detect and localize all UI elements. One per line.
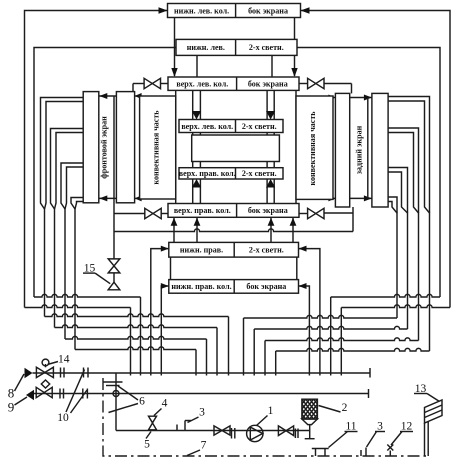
node arrow into box4 left	[192, 111, 201, 120]
node flow arrow 8	[25, 368, 33, 378]
header box3 верхний левый коллектор	[168, 77, 299, 90]
wire box9 right feeder	[299, 286, 310, 376]
wire right bus 3 drop	[264, 341, 266, 376]
wire rear screen riser pipe 2	[388, 128, 418, 213]
wire box2 to box3 left	[196, 55, 198, 77]
node arrow into box3 right	[291, 68, 297, 77]
wire left bus 2	[55, 325, 218, 328]
node arrow into rear screen top	[364, 95, 372, 101]
wire left bus 1 drop	[228, 317, 230, 376]
wire right bus 3	[265, 338, 419, 341]
pipe pump suction line 3	[116, 430, 310, 432]
wire konv-right to panel top arrow	[333, 97, 335, 99]
svg-text:2: 2	[342, 402, 348, 414]
svg-text:нижн. лев.: нижн. лев.	[187, 43, 225, 52]
wire left riser 4 to bus	[74, 209, 76, 350]
wire box8 right feeder	[299, 249, 320, 376]
wire front screen riser pipe 1	[41, 98, 84, 210]
wire rear screen bottom feed	[350, 197, 372, 199]
header box8 нижний правый	[169, 242, 299, 257]
header box7 верхний правый коллектор	[168, 204, 299, 218]
svg-text:8: 8	[8, 386, 15, 401]
svg-text:конвективная часть: конвективная часть	[152, 110, 161, 185]
wire konv right edge extension	[295, 90, 297, 203]
svg-text:11: 11	[345, 421, 356, 433]
wire box3-box4 right pipe pair	[266, 90, 268, 119]
node arrow into box9 left	[161, 283, 169, 289]
valve lower-right gate	[308, 208, 324, 218]
wire front screen riser pipe 3	[61, 163, 83, 209]
node line2 end cap	[368, 389, 370, 398]
wire konv left edge extension	[175, 90, 177, 203]
node line1 end cap	[369, 368, 371, 378]
front screen panel A	[83, 92, 99, 203]
svg-text:4: 4	[162, 398, 168, 410]
header box1 нижний левый коллектор	[168, 4, 301, 18]
wire right bus 4	[276, 348, 430, 351]
node line1 flange pair 2	[83, 368, 85, 378]
wire inner loop right (box2 right, down, to drop at 330.7)	[297, 48, 440, 298]
pipe main line 1	[33, 372, 371, 374]
wire front screen riser pipe 2	[51, 129, 84, 210]
wire front screen top feed	[99, 95, 116, 97]
wire box8 left feeder	[151, 249, 169, 376]
wire left bus 3	[65, 336, 207, 339]
wire right riser 4 to bus	[429, 213, 431, 352]
wire bend to rear panel top	[351, 84, 353, 94]
wire box7-box6 right pipe pair	[266, 179, 268, 204]
node funnel bars	[103, 381, 123, 383]
wire box7-box8 stub 3	[270, 217, 272, 242]
node arrowhead left konv top	[135, 93, 142, 99]
wire konv-left to panel bottom arrow	[135, 197, 140, 199]
svg-text:задний экран: задний экран	[355, 125, 364, 174]
valve on line2	[36, 387, 52, 397]
wire box3 left tab	[160, 83, 168, 85]
wire filter drain stem	[309, 425, 311, 439]
valve V14 on line1	[36, 367, 53, 377]
svg-text:7: 7	[201, 440, 207, 452]
svg-text:3: 3	[199, 407, 205, 419]
svg-text:верх. лев. кол.: верх. лев. кол.	[181, 122, 233, 131]
wire right bus 2	[254, 326, 407, 329]
wire box7 left tab	[161, 213, 168, 215]
valve V15 hourglass	[108, 259, 120, 273]
wire right bus 1 drop	[243, 318, 245, 376]
node arrow into box7 stub 1	[171, 218, 178, 226]
svg-text:2-х светн.: 2-х светн.	[249, 43, 284, 52]
duct louver 13	[425, 400, 443, 423]
node arrow into rear screen bottom	[364, 195, 372, 201]
wire left bus 4	[75, 347, 196, 350]
wire right bus 4 drop	[275, 351, 277, 376]
header box2 нижний левый	[176, 39, 297, 55]
svg-text:2-х светн.: 2-х светн.	[249, 246, 284, 255]
node arrow into front screen bottom	[99, 195, 107, 201]
node arrow into box4 right	[266, 111, 275, 120]
header box4 верхний левый коллектор светн	[179, 120, 283, 133]
node line3 tap bars	[176, 425, 178, 431]
node pump flange pair	[231, 428, 233, 439]
svg-text:бок экрана: бок экрана	[248, 206, 288, 215]
node flow arrow 9	[26, 390, 34, 400]
wire left riser 1 to bus	[44, 209, 46, 317]
valve upper-left gate	[144, 78, 160, 88]
node arrow into box6 right	[266, 179, 275, 188]
node arrow into box8 left	[161, 246, 169, 252]
wire box3 right tab	[299, 83, 308, 85]
wire left riser 2 to bus	[54, 209, 56, 328]
wire box3 left valve line	[133, 83, 145, 85]
wire front screen bottom feed	[99, 197, 116, 199]
header box9 нижний правый коллектор	[169, 280, 299, 294]
svg-text:5: 5	[144, 439, 150, 451]
node valve diamond handle	[41, 380, 49, 388]
wire box7-box8 stub 1	[173, 217, 175, 242]
node arrow into box7 stub 3	[268, 218, 275, 226]
wire rear screen riser pipe 4	[388, 197, 397, 213]
svg-text:2-х светн.: 2-х светн.	[242, 122, 277, 131]
pump P1	[247, 425, 263, 441]
wire box7-box8 stub 4	[292, 217, 294, 242]
wire rear screen riser pipe 3	[388, 168, 407, 214]
rear screen panel C	[335, 93, 349, 207]
node arrow into box1 left	[159, 7, 168, 13]
valve lower-left gate	[145, 208, 161, 218]
svg-text:9: 9	[8, 400, 15, 415]
node arrow into box1 right	[301, 7, 310, 13]
svg-text:верх. прав. кол.: верх. прав. кол.	[174, 206, 231, 215]
node arrow into box9 right	[299, 283, 307, 289]
valve upper-right gate	[308, 78, 324, 88]
svg-text:бок экрана: бок экрана	[246, 282, 286, 291]
wire bend to front panel top	[132, 84, 134, 92]
valve before pump	[214, 426, 230, 435]
svg-text:верх. прав. кол.: верх. прав. кол.	[179, 169, 236, 178]
wire left bus 4 drop	[195, 350, 197, 376]
node line2 flange pair 2	[82, 389, 84, 399]
node arrow into box7 stub 4	[290, 218, 297, 226]
wire rear screen top feed	[350, 97, 372, 99]
node support 11	[312, 448, 329, 450]
wire rear screen connector	[367, 98, 369, 199]
node line2 flange pair	[59, 389, 61, 399]
front screen panel B	[116, 92, 134, 203]
node drain funnel triangle	[108, 282, 120, 290]
wire front screen connector	[113, 96, 115, 198]
svg-text:2-х светн.: 2-х светн.	[242, 169, 277, 178]
svg-text:12: 12	[401, 421, 413, 433]
wire front screen riser pipe 4	[71, 198, 83, 210]
valve after pump	[278, 426, 293, 436]
wire left bus 1	[45, 314, 229, 317]
wire right bus 1	[244, 315, 398, 318]
node drain end bar	[305, 438, 315, 440]
node tap bar right	[365, 448, 367, 457]
svg-text:нижн. прав.: нижн. прав.	[180, 246, 223, 255]
svg-text:бок экрана: бок экрана	[248, 6, 288, 15]
wire header line right riser	[352, 207, 354, 232]
wire right riser 1 to bus	[396, 213, 398, 319]
node drain valve 12	[387, 445, 393, 451]
wire box7 left valve line	[114, 213, 145, 215]
wire box3 right valve line	[324, 83, 352, 85]
node arrowhead left konv bottom	[135, 195, 142, 201]
filter funnel	[302, 419, 318, 425]
wire left riser 3 to bus	[64, 209, 66, 340]
svg-text:бок экрана: бок экрана	[248, 80, 288, 89]
wire drain stub	[113, 273, 115, 282]
wire rear screen riser pipe 1	[388, 97, 429, 214]
wire left bus 2 drop	[216, 328, 218, 376]
drum box5	[192, 135, 280, 162]
node line1 flange pair	[60, 368, 62, 378]
svg-text:10: 10	[57, 412, 69, 424]
node arrow into box6 left	[192, 179, 201, 188]
node after-valve flange pair	[294, 429, 296, 439]
svg-text:14: 14	[58, 353, 70, 365]
wire under-box7 header line	[114, 229, 353, 232]
node arrow into box7 stub 2	[194, 218, 201, 226]
rear screen panel D	[372, 93, 388, 207]
svg-text:верх. лев. кол.: верх. лев. кол.	[176, 80, 228, 89]
node arrow into front screen top	[99, 93, 107, 99]
svg-text:6: 6	[139, 396, 145, 408]
wire inner loop left (box2 left, down, to drop at 140.5)	[34, 48, 176, 298]
pipe main line 2	[34, 393, 369, 395]
valve V4 on line3	[149, 416, 157, 423]
wire box7-box6 left pipe pair	[192, 179, 194, 204]
wire box1 to box3 left downcomer	[174, 18, 176, 77]
wire box1 to box3 right downcomer	[294, 18, 296, 77]
svg-text:нижн. лев. кол.: нижн. лев. кол.	[174, 6, 229, 15]
wire right riser 3 to bus	[418, 213, 420, 341]
wire box3-box4 left pipe pair	[192, 90, 194, 119]
svg-text:1: 1	[268, 405, 274, 417]
wire box7 right tab	[299, 213, 308, 215]
node arrowhead right konv bottom	[328, 195, 335, 201]
wire outer loop left (box1 left, down left frame, to drop at 130.5)	[25, 11, 168, 308]
node arrow into box8 right	[299, 246, 307, 252]
convective part left box	[140, 96, 176, 199]
wire right bus 2 drop	[253, 329, 255, 376]
node arrow into box3 left	[171, 68, 177, 77]
wire box4-box5 stubs	[192, 133, 194, 136]
wire konv-left to panel top arrow	[135, 95, 140, 97]
wire box2 to box3 right	[271, 55, 273, 77]
wire right riser 2 to bus	[407, 213, 409, 330]
node arrowhead right konv top	[328, 95, 335, 101]
wire duct downpipe	[424, 423, 426, 456]
wire box5-box6 stubs	[192, 162, 194, 168]
wire konv-right to panel bottom arrow	[333, 197, 335, 199]
wire left bus 3 drop	[206, 339, 208, 376]
wire box8-box9 edge stub 1	[170, 257, 172, 280]
wire box7 right valve line	[324, 212, 353, 214]
svg-text:3: 3	[377, 421, 383, 433]
filter mesh box	[302, 399, 318, 419]
wire box7-box8 stub 2	[196, 217, 198, 242]
header box6 верхний правый коллектор светн	[179, 168, 283, 179]
convective part right box	[296, 96, 333, 199]
svg-text:фронтовой экран: фронтовой экран	[100, 116, 109, 179]
wire box9 left feeder	[161, 286, 169, 376]
wire box8-box9 edge stub 2	[296, 257, 298, 280]
node valve14 handwheel	[45, 364, 47, 367]
wire funnel stem	[115, 373, 117, 431]
boundary dash-dot bottom	[103, 378, 428, 456]
svg-text:нижн. прав. кол.: нижн. прав. кол.	[171, 282, 231, 291]
node junction circle	[113, 391, 119, 397]
svg-text:конвективная часть: конвективная часть	[308, 111, 317, 186]
wire drain downcomer	[113, 198, 115, 259]
wire outer loop right (box1 right, down right frame, to drop at 341.3)	[301, 11, 451, 308]
